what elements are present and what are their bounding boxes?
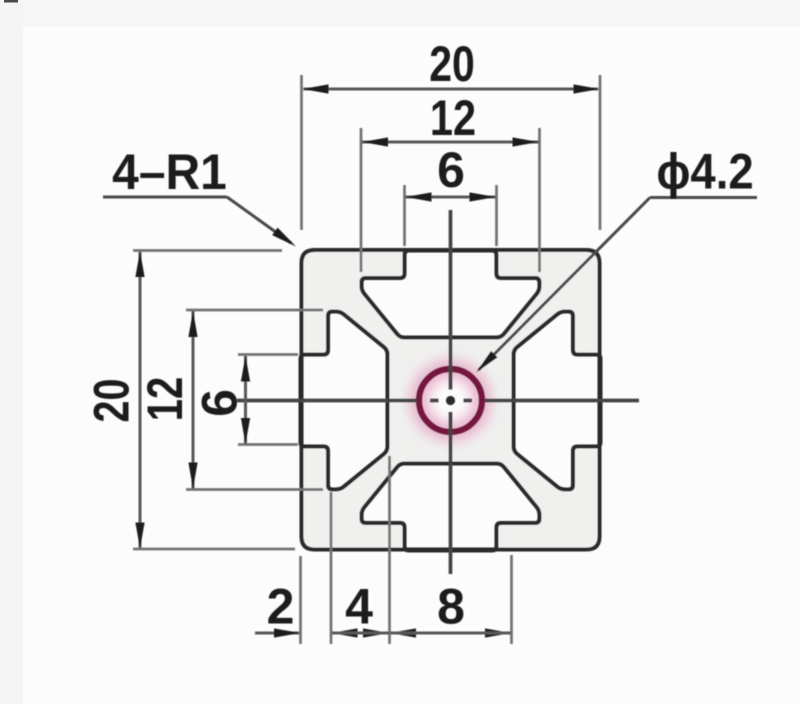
svg-text:4–R1: 4–R1 (112, 145, 227, 200)
svg-text:6: 6 (192, 389, 248, 417)
svg-text:4: 4 (345, 579, 373, 635)
svg-text:20: 20 (83, 379, 140, 423)
svg-text:2: 2 (267, 579, 295, 635)
svg-text:12: 12 (137, 377, 193, 421)
svg-text:6: 6 (437, 142, 465, 198)
svg-text:20: 20 (429, 36, 475, 92)
svg-text:12: 12 (430, 89, 476, 146)
svg-text:ϕ4.2: ϕ4.2 (656, 145, 753, 200)
svg-text:8: 8 (437, 579, 465, 635)
